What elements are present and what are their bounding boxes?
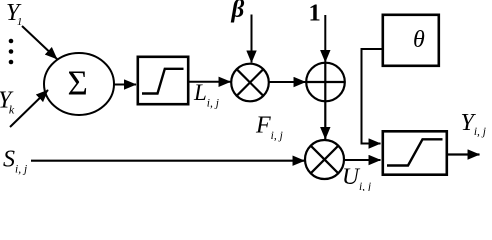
svg-text:1: 1 — [309, 0, 321, 27]
sigmoid curve in box2 — [387, 139, 443, 165]
svg-text:θ: θ — [413, 27, 425, 53]
svg-text:Σ: Σ — [68, 64, 88, 103]
multiplier2 circle — [305, 140, 344, 179]
wire multiplier1 to adder — [269, 81, 306, 83]
multiplier1 cross — [237, 69, 264, 96]
box1 squashing function — [138, 57, 188, 104]
wire Y1 arrow into summer — [22, 26, 57, 59]
multiplier1 circle — [231, 64, 269, 102]
adder circle — [306, 63, 345, 102]
wire summer to box1 — [114, 84, 136, 86]
multiplier2 cross — [311, 146, 339, 174]
wire multiplier2 to box2 — [344, 159, 381, 161]
wire beta arrow down — [251, 15, 253, 63]
box2 squashing function — [383, 131, 447, 174]
wire S long line to multiplier2 — [31, 160, 305, 162]
adder plus horizontal — [306, 81, 345, 83]
adder plus vertical continuing down to multiplier2 — [324, 63, 326, 139]
wire Yk arrow into summer — [10, 90, 48, 127]
wire theta to box2 — [362, 49, 382, 144]
theta box — [383, 15, 439, 66]
vertical ellipsis dots — [9, 39, 14, 65]
wire 1 arrow down — [324, 15, 326, 62]
summer circle U-sum — [44, 53, 114, 115]
wire box2 output to Y — [448, 153, 480, 155]
svg-text:β: β — [231, 0, 245, 23]
wire box1 to multiplier1 — [190, 81, 231, 83]
sigmoid curve in box1 — [142, 69, 184, 94]
